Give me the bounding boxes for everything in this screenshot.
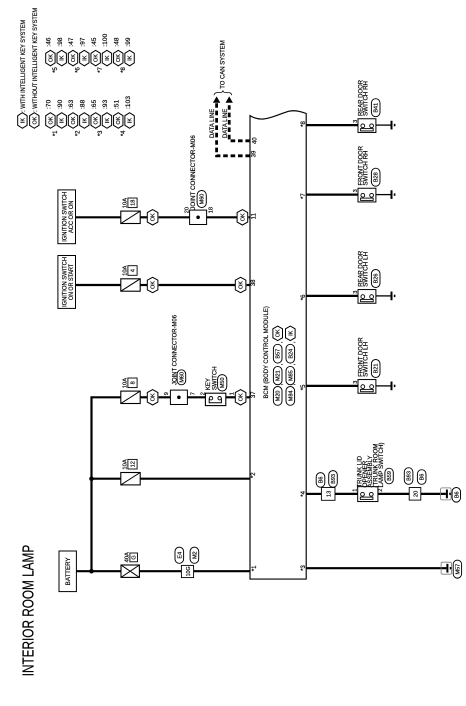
connector ref E4	[175, 547, 184, 563]
connector ref B6 oval lower	[417, 470, 426, 485]
wire CAN data line from BCM pin 40	[229, 102, 250, 141]
svg-text:B6: B6	[420, 474, 426, 481]
svg-text:IK: IK	[128, 55, 134, 61]
svg-text:B41: B41	[374, 103, 380, 113]
BCM connector refs row 1: M20 M21 B57 OK	[273, 326, 284, 405]
joint connector M60	[170, 390, 187, 404]
svg-text:*4: *4	[121, 130, 127, 136]
svg-text:39: 39	[252, 150, 258, 157]
wire OK splice to joint connector pin 9	[159, 396, 171, 398]
wire connector 10G to BCM pin *1	[194, 570, 250, 572]
svg-text:*3: *3	[301, 565, 307, 571]
svg-text:OK: OK	[48, 54, 54, 62]
svg-text::90: :90	[57, 99, 64, 109]
svg-text:*6: *6	[76, 66, 82, 72]
label TRUNK LID OPENER ASSEMBLY (TRUNK ROOM LAMP SWITCH)	[358, 442, 385, 487]
legend entry *3 OK:65 IK:93	[91, 99, 112, 136]
wire OK splice to BCM pin 38	[247, 284, 250, 286]
svg-text:IK: IK	[60, 55, 66, 61]
node junction bus / fuse 12 branch	[89, 476, 94, 481]
door switch REAR DOOR SWITCH RH B41	[358, 119, 376, 133]
node junction battery feed / bus	[89, 569, 94, 574]
svg-text:9: 9	[164, 392, 170, 395]
wire supply bus to branches	[92, 397, 122, 571]
wire connector 13 to trunk lid opener pin 1	[335, 493, 358, 495]
svg-text:M60: M60	[179, 372, 185, 383]
svg-text:*2: *2	[251, 472, 257, 478]
ground B28	[391, 190, 396, 199]
legend entry *6 OK:47 IK:97	[68, 37, 89, 73]
svg-text:G: G	[132, 555, 138, 559]
svg-text::63: :63	[68, 99, 75, 109]
door switch FRONT DOOR SWITCH LH B21	[358, 380, 376, 394]
svg-text:OK: OK	[71, 116, 77, 124]
svg-text:*8: *8	[301, 121, 307, 127]
wire OK splice to BCM pin 11	[248, 216, 250, 218]
svg-text:: WITHOUT INTELLIGENT KEY SYST: : WITHOUT INTELLIGENT KEY SYSTEM	[32, 8, 39, 112]
svg-text:IK: IK	[105, 118, 111, 124]
wire joint connector to key switch pin 2	[187, 396, 205, 398]
splice OK branch D	[147, 277, 158, 292]
svg-text:*2: *2	[76, 130, 82, 136]
svg-text:M20: M20	[276, 391, 282, 402]
svg-text:OK: OK	[239, 393, 245, 401]
svg-text:OK: OK	[116, 116, 122, 124]
svg-text:M50: M50	[220, 377, 226, 388]
ground M57	[441, 562, 452, 574]
connector ref M2	[190, 547, 199, 563]
svg-text:M84: M84	[288, 391, 294, 402]
wire B41 to ground	[376, 124, 391, 126]
wire fuse 8 to OK splice	[140, 396, 147, 398]
svg-text:B93: B93	[331, 474, 337, 484]
svg-text::98: :98	[57, 37, 64, 47]
svg-text:OK: OK	[151, 281, 157, 289]
splice OK (without intelligent key)	[147, 390, 158, 405]
svg-text:*5: *5	[301, 384, 307, 390]
svg-text:IK: IK	[288, 330, 294, 336]
splice OK branch E	[147, 210, 158, 225]
svg-text:ACC OR ON: ACC OR ON	[69, 201, 75, 233]
wire BCM to front door switch rh	[306, 194, 358, 196]
svg-text:*1: *1	[53, 130, 59, 136]
legend entry *8 OK:48 IK:99	[113, 37, 134, 73]
svg-text:B21: B21	[374, 364, 380, 374]
svg-text:B24: B24	[288, 349, 294, 359]
key switch	[205, 393, 225, 405]
connector ref B41 oval	[371, 99, 380, 117]
wire OK splice to second OK splice	[159, 284, 236, 286]
svg-text:ON OR START: ON OR START	[69, 264, 75, 300]
brace to CAN system	[214, 90, 232, 95]
wire fuse 4 to OK splice	[140, 284, 147, 286]
wire OK splice to BCM pin 37	[247, 396, 250, 398]
svg-text:BCM (BODY CONTROL MODULE): BCM (BODY CONTROL MODULE)	[263, 306, 270, 398]
svg-text:B26: B26	[374, 274, 380, 284]
svg-text::65: :65	[91, 99, 98, 109]
label KEY SWITCH	[206, 366, 218, 390]
battery B+ supply	[59, 551, 76, 592]
door switch REAR DOOR SWITCH LH B26	[358, 290, 376, 304]
svg-text:B6: B6	[454, 491, 460, 498]
wire ignition acc/on to fuse 18	[76, 216, 122, 218]
connector ref M50 oval	[218, 375, 227, 391]
svg-text::48: :48	[113, 37, 120, 47]
svg-text:OK: OK	[276, 329, 282, 337]
fuse 10A 4	[121, 279, 140, 291]
wire BCM to rear door switch rh	[306, 124, 358, 126]
svg-text:7: 7	[190, 392, 196, 395]
svg-text:E4: E4	[177, 552, 183, 559]
wire key switch to OK splice 2	[226, 396, 236, 398]
svg-text:13: 13	[327, 491, 333, 497]
svg-text::70: :70	[46, 99, 53, 109]
door switch FRONT DOOR SWITCH RH B28	[358, 188, 376, 202]
wire BCM to rear door switch lh	[306, 295, 358, 297]
legend entry *4 OK:51 IK:103	[113, 96, 134, 137]
trunk room lamp switch	[358, 487, 378, 502]
svg-text:IK: IK	[128, 118, 134, 124]
svg-text:SWITCH LH: SWITCH LH	[364, 342, 370, 377]
wire battery to bus junction	[76, 570, 121, 572]
label 40A G	[125, 552, 138, 562]
connector ref M57 oval	[453, 560, 461, 578]
connector ref B28 oval	[371, 168, 380, 186]
svg-text:38: 38	[251, 279, 257, 286]
wire B21 to ground	[376, 385, 391, 387]
svg-text::46: :46	[46, 37, 53, 47]
connector ref B59 oval	[385, 468, 393, 484]
legend entry *2 OK:63 IK:88	[68, 99, 89, 136]
legend entry *1 OK:70 IK:90	[46, 99, 67, 136]
svg-text::103: :103	[125, 96, 132, 109]
ground B6	[441, 488, 452, 500]
svg-text:20: 20	[413, 491, 419, 497]
svg-text:IK: IK	[82, 55, 88, 61]
svg-text:B57: B57	[276, 349, 282, 359]
svg-text:M60: M60	[200, 194, 206, 205]
wire joint connector to OK splice	[207, 216, 238, 218]
connector ref M60 oval branch E	[197, 191, 206, 208]
svg-text:11: 11	[251, 212, 257, 219]
legend entry *7 OK:45 IK:100	[91, 33, 112, 72]
svg-text:*3: *3	[98, 130, 104, 136]
label 10A 18	[123, 198, 138, 208]
connector 13	[321, 488, 335, 501]
svg-text:*7: *7	[301, 193, 307, 199]
svg-text:10G: 10G	[186, 566, 192, 576]
svg-text:1: 1	[229, 392, 235, 395]
svg-text:BATTERY: BATTERY	[66, 557, 72, 585]
wire fusible link to connector 10G	[139, 570, 181, 572]
svg-text:18: 18	[131, 200, 137, 206]
legend OK = without intelligent key system	[30, 113, 39, 129]
svg-text::51: :51	[113, 99, 120, 109]
svg-text:12: 12	[131, 461, 137, 467]
svg-text:*8: *8	[121, 66, 127, 72]
svg-text:OK: OK	[239, 281, 245, 289]
connector ref B26 oval	[371, 270, 380, 288]
splice OK before BCM pin 37	[235, 390, 246, 405]
fuse 10A 8	[121, 391, 140, 403]
label FRONT DOOR SWITCH RH	[358, 145, 369, 185]
svg-text:B28: B28	[374, 172, 380, 182]
wire B26 to ground	[376, 295, 391, 297]
wire OK splice to joint connector pin 20	[159, 216, 190, 218]
label REAR DOOR SWITCH LH	[358, 250, 369, 287]
svg-text:OK: OK	[116, 54, 122, 62]
arrow to CAN system line 40	[226, 96, 233, 102]
svg-text::93: :93	[102, 99, 109, 109]
svg-text:SWITCH RH: SWITCH RH	[364, 151, 370, 186]
svg-text:OK: OK	[151, 213, 157, 221]
connector ref B6 ground oval	[452, 488, 460, 503]
svg-text:SWITCH RH: SWITCH RH	[364, 81, 370, 116]
wire connector 20 to ground B6	[421, 493, 446, 495]
ground B21	[391, 382, 396, 391]
ground B41	[391, 121, 396, 130]
wire CAN data line from BCM pin 39	[217, 102, 250, 156]
svg-text:B6: B6	[318, 477, 324, 484]
svg-text:*7: *7	[98, 66, 104, 72]
svg-text:M2: M2	[192, 551, 198, 559]
wire BCM to front door switch lh	[306, 385, 358, 387]
label 10A 12	[123, 459, 138, 469]
connector ref B93 oval	[329, 471, 338, 488]
svg-text:DATA LINE: DATA LINE	[210, 109, 216, 138]
fuse 10A 12	[121, 473, 140, 485]
connector ref B21 oval	[371, 360, 380, 378]
svg-text:M57: M57	[455, 564, 461, 575]
svg-text::47: :47	[68, 37, 75, 47]
connector ref B6 oval	[316, 473, 325, 488]
wire ignition on/start to fuse 4	[76, 284, 122, 286]
svg-text:OK: OK	[48, 116, 54, 124]
legend entry *5 OK:46 IK:98	[46, 37, 67, 73]
svg-text:TO CAN SYSTEM: TO CAN SYSTEM	[220, 40, 227, 89]
connector ref M60 oval	[177, 370, 186, 385]
svg-text:: WITH INTELLIGENT KEY SYSTEM: : WITH INTELLIGENT KEY SYSTEM	[20, 20, 27, 112]
svg-text:37: 37	[251, 391, 257, 398]
svg-text::100: :100	[102, 33, 109, 46]
svg-text:18: 18	[208, 207, 214, 213]
svg-text:IK: IK	[60, 118, 66, 124]
svg-text:IK: IK	[20, 118, 26, 124]
wire B28 to ground	[376, 194, 391, 196]
svg-text::99: :99	[125, 37, 132, 47]
BCM (body control module)	[250, 111, 306, 579]
svg-text:OK: OK	[151, 393, 157, 401]
legend IK = with intelligent key system	[18, 113, 27, 129]
wire BCM pin *3 to ground M57	[306, 567, 446, 569]
svg-text:LAMP SWITCH): LAMP SWITCH)	[379, 442, 385, 487]
svg-text::97: :97	[80, 37, 87, 47]
svg-text:IK: IK	[82, 118, 88, 124]
svg-text:4: 4	[131, 269, 137, 272]
wire fuse 18 to OK splice	[140, 216, 147, 218]
wire BCM pin *4 to connector 13	[306, 493, 321, 495]
svg-text:IGNITION SWITCH: IGNITION SWITCH	[62, 192, 68, 242]
connector ref B93 oval lower	[404, 468, 413, 485]
svg-text:2: 2	[378, 489, 384, 492]
label 10A 8	[123, 378, 138, 388]
wire trunk switch pin 2 to connector 20	[378, 493, 409, 495]
svg-text:8: 8	[131, 381, 137, 384]
svg-text::88: :88	[80, 99, 87, 109]
BCM connector refs row 2: M84 M85 B24 IK	[286, 326, 297, 405]
ignition switch ACC OR ON source	[58, 190, 76, 244]
svg-text:IGNITION SWITCH: IGNITION SWITCH	[62, 257, 68, 307]
svg-text:JOINT CONNECTOR-M06: JOINT CONNECTOR-M06	[191, 135, 197, 210]
svg-text:DATA LINE: DATA LINE	[223, 109, 229, 138]
svg-text:IK: IK	[105, 55, 111, 61]
svg-text:INTERIOR ROOM LAMP: INTERIOR ROOM LAMP	[21, 545, 38, 677]
wire bus to fuse 12	[92, 478, 122, 480]
svg-text:KEY: KEY	[206, 378, 212, 390]
splice OK before BCM pin 38	[235, 277, 246, 292]
connector 10G	[181, 565, 193, 577]
svg-text:OK: OK	[94, 116, 100, 124]
splice OK before BCM pin 11	[237, 210, 248, 225]
svg-text:OK: OK	[240, 213, 246, 221]
label 10A 4	[123, 265, 138, 275]
label REAR DOOR SWITCH RH	[358, 79, 369, 116]
joint connector M60 branch E	[190, 210, 207, 224]
svg-text:OK: OK	[94, 54, 100, 62]
wire fuse 12 to BCM pin *2	[140, 478, 250, 480]
svg-text:M85: M85	[288, 370, 294, 381]
label FRONT DOOR SWITCH LH	[358, 337, 369, 377]
svg-text:*5: *5	[53, 66, 59, 72]
svg-text:40: 40	[252, 137, 258, 144]
svg-text:M21: M21	[276, 370, 282, 381]
fusible link 40A G	[121, 565, 139, 577]
connector 20	[409, 488, 421, 501]
ignition switch ON OR START source	[58, 256, 76, 309]
fuse 10A 18	[121, 211, 140, 223]
svg-text:*1: *1	[252, 565, 258, 571]
arrow to CAN system line 39	[213, 96, 220, 102]
ground B26	[391, 292, 396, 301]
svg-text:OK: OK	[71, 54, 77, 62]
svg-text:B93: B93	[407, 471, 413, 481]
svg-text:SWITCH LH: SWITCH LH	[364, 252, 370, 287]
svg-text:OK: OK	[32, 116, 38, 124]
svg-text:*6: *6	[301, 294, 307, 300]
svg-text:B59: B59	[387, 471, 393, 481]
svg-text::45: :45	[91, 37, 98, 47]
